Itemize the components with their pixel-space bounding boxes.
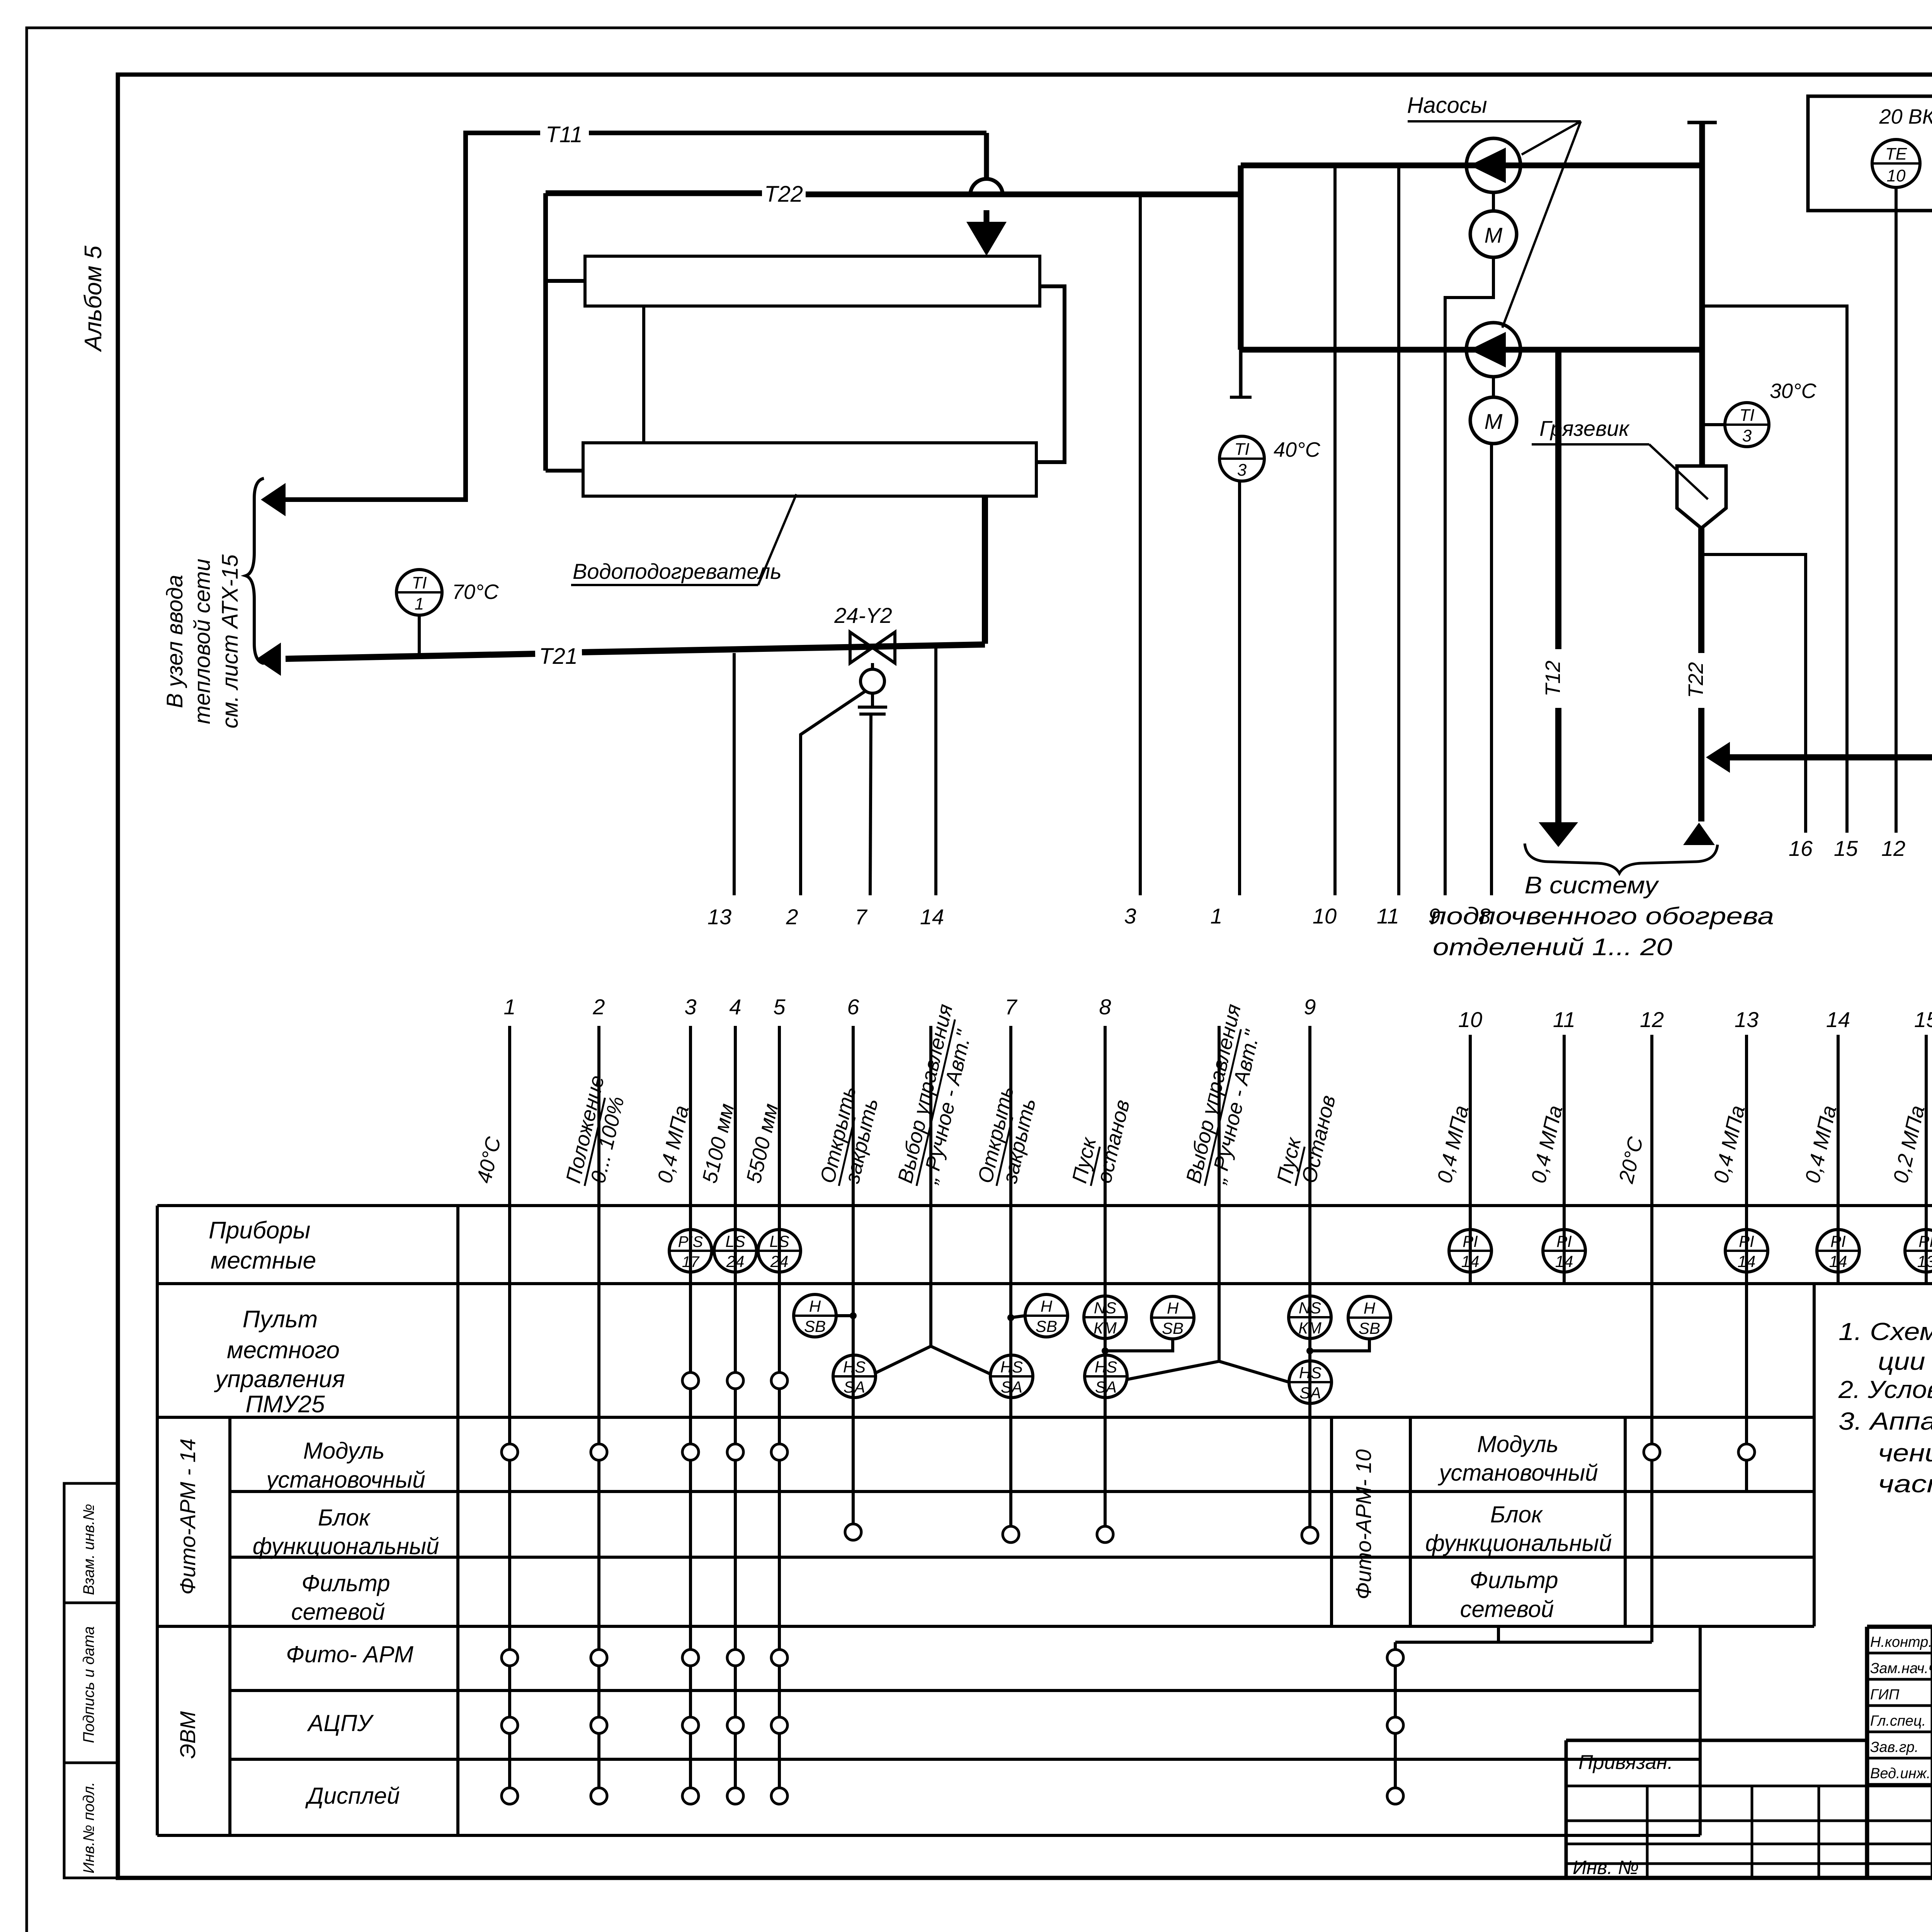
svg-text:Т11: Т11 — [546, 122, 583, 147]
svg-text:14: 14 — [920, 905, 944, 929]
svg-text:1. Схема автоматизации выпол: 1. Схема автоматизации выполнена на осно… — [1838, 1318, 1932, 1345]
dirt trap Грязевик — [1677, 466, 1726, 528]
arrow up from system T22 — [1683, 823, 1715, 845]
svg-text:В систему: В систему — [1525, 872, 1660, 899]
svg-text:8: 8 — [1099, 995, 1111, 1019]
svg-text:10: 10 — [1887, 166, 1906, 185]
thermometer TI-1 — [396, 570, 442, 615]
svg-text:Инв.№ подл.: Инв.№ подл. — [80, 1782, 97, 1873]
branch to line 15 — [1702, 306, 1847, 833]
heat exchanger upper vessel — [585, 256, 1040, 306]
arrow down into system T12 — [1539, 822, 1578, 847]
table line 13 — [1745, 1035, 1748, 1492]
table line 8 with NS-KM, H-SB, HS-SA — [1104, 1026, 1107, 1534]
selector fork 1 — [874, 1026, 931, 1374]
svg-text:Вед.инж.: Вед.инж. — [1870, 1765, 1930, 1782]
svg-text:70°С: 70°С — [452, 580, 499, 604]
stamp box Привязан — [1566, 1739, 1867, 1742]
svg-text:Зав.гр.: Зав.гр. — [1870, 1739, 1918, 1755]
svg-text:SА: SА — [1299, 1384, 1321, 1402]
brace left — [246, 478, 264, 663]
svg-text:ЭВМ: ЭВМ — [175, 1711, 200, 1759]
svg-text:Фито- АРМ: Фито- АРМ — [286, 1641, 413, 1667]
svg-text:Н.контр.: Н.контр. — [1870, 1634, 1932, 1650]
svg-text:1: 1 — [503, 995, 515, 1019]
svg-text:Водоподогреватель: Водоподогреватель — [573, 559, 782, 583]
manifold stub with cap — [1239, 350, 1243, 397]
T22 left loop down — [543, 193, 548, 471]
svg-text:Фильтр: Фильтр — [301, 1570, 390, 1596]
svg-text:ТI: ТI — [412, 573, 427, 592]
svg-text:тепловой сети: тепловой сети — [190, 559, 215, 724]
svg-text:13: 13 — [1735, 1007, 1759, 1032]
svg-text:сетевой: сетевой — [291, 1599, 385, 1625]
svg-text:Т12: Т12 — [1541, 660, 1565, 696]
svg-text:12: 12 — [1881, 836, 1905, 861]
brace to system — [1525, 844, 1718, 873]
svg-text:Фито-АРМ - 14: Фито-АРМ - 14 — [175, 1439, 200, 1595]
svg-text:9: 9 — [1304, 995, 1316, 1019]
svg-text:Модуль: Модуль — [303, 1438, 385, 1464]
signal line 13 top — [733, 653, 736, 895]
svg-text:см. лист АТХ-15: см. лист АТХ-15 — [218, 554, 243, 728]
svg-text:24-Y2: 24-Y2 — [834, 603, 892, 628]
signal line 8 top — [1490, 444, 1493, 895]
signal line 11 top — [1397, 165, 1400, 895]
svg-text:ции КТПС „ Ангар 18 ”: ции КТПС „ Ангар 18 ” — [1878, 1347, 1932, 1375]
svg-text:ТI: ТI — [1739, 406, 1754, 425]
svg-text:чении КМ. SА , SВ предус: чении КМ. SА , SВ предусмотрена в электр… — [1878, 1439, 1932, 1467]
svg-text:16: 16 — [1789, 836, 1813, 861]
svg-text:SА: SА — [844, 1378, 865, 1396]
svg-text:40°С: 40°С — [1274, 438, 1321, 461]
table line 7 with H-SB and HS-SA — [1009, 1026, 1012, 1534]
svg-text:НS: НS — [1299, 1364, 1321, 1382]
svg-text:Фито-АРМ- 10: Фито-АРМ- 10 — [1351, 1449, 1376, 1600]
svg-text:15: 15 — [1834, 836, 1858, 861]
svg-text:15: 15 — [1914, 1007, 1932, 1032]
svg-text:Т21: Т21 — [539, 644, 578, 669]
table lines 14 15 16 local only — [1837, 1035, 1840, 1284]
svg-text:3: 3 — [1237, 461, 1247, 480]
table line 9 with NS-KM, H-SB, HS-SA — [1308, 1026, 1311, 1535]
pipe T21 — [582, 645, 985, 652]
svg-text:10: 10 — [1313, 904, 1337, 928]
svg-text:Фильтр: Фильтр — [1469, 1567, 1558, 1593]
svg-text:управления: управления — [214, 1366, 345, 1393]
svg-text:14: 14 — [1826, 1007, 1850, 1032]
pipe T11 drop with crossing hop — [984, 133, 989, 180]
svg-text:КМ: КМ — [1094, 1319, 1117, 1337]
signal line 14 top — [934, 646, 937, 895]
svg-text:функциональный: функциональный — [1425, 1530, 1612, 1556]
svg-text:НS: НS — [843, 1358, 866, 1376]
svg-text:части комлекта автоматики: части комлекта автоматики КТПС „ Ангар 1… — [1878, 1470, 1932, 1498]
svg-text:Модуль: Модуль — [1477, 1431, 1559, 1457]
heat exchanger lower vessel — [583, 443, 1036, 496]
svg-text:13: 13 — [1917, 1252, 1932, 1270]
svg-text:установочный: установочный — [1437, 1460, 1598, 1486]
svg-text:SВ: SВ — [1359, 1319, 1380, 1337]
svg-text:7: 7 — [1005, 995, 1017, 1019]
svg-text:ГИП: ГИП — [1870, 1687, 1900, 1703]
pump 2 motor M — [1492, 377, 1495, 397]
svg-text:отделений 1... 20: отделений 1... 20 — [1433, 934, 1672, 961]
svg-text:Т22: Т22 — [1684, 662, 1708, 698]
svg-text:подпочвенного обогрева: подпочвенного обогрева — [1430, 903, 1774, 930]
svg-text:КМ: КМ — [1298, 1319, 1321, 1337]
svg-text:2: 2 — [786, 905, 798, 929]
svg-text:1: 1 — [1210, 904, 1222, 928]
branch to line 16 — [1701, 554, 1806, 833]
pump manifold — [1238, 165, 1244, 350]
thermometer TI-3 40C — [1219, 436, 1264, 481]
signal line 9 top — [1445, 257, 1493, 895]
svg-text:11: 11 — [1377, 904, 1399, 928]
sensor TE-10 — [1872, 139, 1920, 187]
pipe T11 — [286, 133, 540, 500]
signal line 12 top from TE-10 — [1895, 187, 1898, 833]
svg-text:Грязевик: Грязевик — [1539, 416, 1630, 440]
svg-text:SА: SА — [1095, 1378, 1117, 1396]
svg-text:Н: Н — [1364, 1299, 1376, 1317]
branch to upper exchanger — [546, 279, 585, 283]
svg-text:Блок: Блок — [318, 1505, 371, 1531]
title block rows left — [1566, 1785, 1932, 1787]
svg-text:11: 11 — [1553, 1007, 1575, 1032]
svg-text:Альбом 5: Альбом 5 — [80, 245, 107, 352]
svg-text:НS: НS — [1095, 1358, 1117, 1376]
svg-text:Зам.нач.чтк: Зам.нач.чтк — [1870, 1660, 1932, 1677]
return riser T22 — [1699, 122, 1705, 466]
svg-text:Н: Н — [1167, 1299, 1179, 1317]
svg-text:Н: Н — [809, 1297, 821, 1315]
svg-text:ТЕ: ТЕ — [1885, 145, 1907, 163]
svg-text:ПМУ25: ПМУ25 — [245, 1391, 325, 1418]
signal line 3 top — [1139, 194, 1142, 895]
table line 12 to Fito-ARM-10 and EVM — [1650, 1035, 1653, 1642]
svg-text:Т22: Т22 — [764, 182, 803, 207]
svg-text:NS: NS — [1299, 1299, 1321, 1317]
signal line 1 top — [1238, 481, 1241, 895]
local instruments row — [669, 1230, 712, 1272]
pump suction line upper — [1241, 163, 1702, 168]
arrow to network return T21 — [256, 643, 281, 676]
svg-text:3: 3 — [684, 995, 696, 1019]
svg-text:Подпись и дата: Подпись и дата — [80, 1626, 97, 1743]
svg-text:М: М — [1485, 223, 1503, 247]
signal line 2 top — [801, 690, 866, 895]
svg-text:5: 5 — [773, 995, 786, 1019]
box Отделение 20 — [1808, 96, 1932, 211]
svg-text:20 ВК: 20 ВК — [1879, 105, 1932, 128]
svg-text:SВ: SВ — [804, 1317, 826, 1335]
sub-block Фито-АРМ-10 — [1330, 1417, 1333, 1626]
arrow to network supply T11 — [261, 483, 286, 516]
svg-text:6: 6 — [847, 995, 859, 1019]
svg-text:2. Условные обозначения прин: 2. Условные обозначения приняты по ГОСТ … — [1838, 1376, 1932, 1403]
selector fork 2 — [1127, 1026, 1219, 1379]
pump 2 — [1466, 323, 1520, 377]
table line 6 with H-SB and HS-SA — [852, 1026, 855, 1532]
svg-text:10: 10 — [1458, 1007, 1482, 1032]
svg-text:3: 3 — [1124, 904, 1136, 928]
svg-text:SВ: SВ — [1162, 1319, 1184, 1337]
svg-text:2: 2 — [592, 995, 605, 1019]
table lines 1-5 — [508, 1026, 511, 1796]
svg-text:Дисплей: Дисплей — [305, 1783, 400, 1809]
pump suction line lower — [1241, 347, 1702, 353]
svg-text:SА: SА — [1001, 1378, 1022, 1396]
exchanger right loop — [1036, 286, 1065, 462]
signal line 10 top — [1333, 165, 1337, 895]
pump 1 — [1466, 138, 1520, 192]
svg-text:В узел ввода: В узел ввода — [162, 575, 187, 708]
stamp strip left — [64, 1483, 118, 1878]
valve 24-Y2 actuator — [871, 663, 874, 669]
svg-text:1: 1 — [415, 595, 424, 614]
valve 24-Y2 — [850, 632, 895, 663]
branch to lower exchanger — [546, 469, 583, 473]
svg-text:SВ: SВ — [1036, 1317, 1057, 1335]
svg-text:4: 4 — [729, 995, 741, 1019]
table lines 10 11 local only — [1469, 1035, 1472, 1284]
svg-text:Гл.спец.: Гл.спец. — [1870, 1713, 1926, 1729]
svg-text:местного: местного — [227, 1337, 340, 1364]
svg-text:местные: местные — [211, 1247, 316, 1274]
svg-text:7: 7 — [855, 905, 867, 929]
svg-text:функциональный: функциональный — [253, 1533, 439, 1559]
svg-text:NS: NS — [1094, 1299, 1116, 1317]
pipe T12 down to system — [1555, 350, 1561, 649]
svg-text:Приборы: Приборы — [209, 1217, 310, 1244]
svg-text:Инв. №: Инв. № — [1573, 1857, 1639, 1878]
signature table — [1867, 1652, 1932, 1655]
svg-text:М: М — [1485, 409, 1503, 434]
arrow into heat exchanger — [966, 222, 1007, 256]
exchanger drain pipe — [982, 496, 988, 644]
svg-text:АЦПУ: АЦПУ — [307, 1710, 374, 1736]
svg-text:13: 13 — [707, 905, 731, 929]
svg-text:Пульт: Пульт — [243, 1306, 318, 1333]
svg-text:НS: НS — [1000, 1358, 1023, 1376]
thermometer TI-3 30C — [1702, 423, 1725, 426]
svg-text:Блок: Блок — [1490, 1502, 1543, 1527]
svg-text:Привязан:: Привязан: — [1578, 1751, 1673, 1774]
svg-text:3. Аппаратура без порядковог: 3. Аппаратура без порядкового номера в п… — [1838, 1407, 1932, 1435]
pipe T22 from manifold to exchanger loop — [806, 192, 1241, 197]
svg-text:12: 12 — [1640, 1007, 1664, 1032]
svg-text:Н: Н — [1041, 1297, 1053, 1315]
svg-text:30°С: 30°С — [1770, 379, 1817, 403]
table grid — [157, 1204, 1932, 1207]
svg-text:сетевой: сетевой — [1460, 1596, 1554, 1622]
title block frame — [1867, 1625, 1932, 1629]
svg-text:Насосы: Насосы — [1407, 93, 1487, 118]
svg-text:Взам. инв.№: Взам. инв.№ — [80, 1504, 97, 1595]
exchanger interconnect — [642, 306, 645, 443]
svg-text:3: 3 — [1742, 426, 1752, 445]
svg-text:ТI: ТI — [1234, 440, 1249, 459]
pump 1 motor M — [1492, 192, 1495, 211]
svg-text:установочный: установочный — [265, 1467, 425, 1493]
riser lower part T22 label — [1698, 528, 1704, 653]
signal line 7 top — [870, 714, 871, 895]
